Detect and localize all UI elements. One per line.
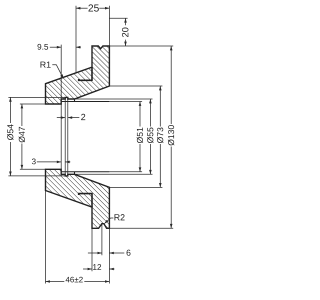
- extension line x=61.2: [60, 45, 62, 176]
- dimension Ø73 line: [159, 86, 161, 127]
- dimension Ø73 arrows: [159, 86, 162, 90]
- dimension 12 arrows: [88, 268, 92, 271]
- dimension Ø47 arrows: [21, 104, 24, 108]
- extension line Ø51 lower: [109, 171, 142, 173]
- dimension 25 text: [88, 4, 93, 11]
- bore step lower: [74, 172, 76, 175]
- bore Ø51 wall upper: [61, 101, 109, 103]
- extension line left face bottom: [45, 191, 47, 284]
- rim relief groove upper (thick L): [79, 79, 92, 80]
- dimension Ø130 line: [170, 46, 172, 124]
- bore step upper: [74, 99, 76, 102]
- leader R1 arrow: [60, 74, 63, 79]
- bore Ø51 wall lower: [61, 171, 109, 173]
- dimension Ø51 text: [137, 137, 143, 143]
- extension line Ø73 lower: [109, 186, 162, 188]
- dimension 9.5 text: [37, 44, 41, 50]
- leader R1 line: [52, 65, 63, 78]
- dimension 9.5 arrows: [57, 46, 61, 49]
- extension line x=65.2: [64, 97, 66, 175]
- dimension Ø54 line: [9, 97, 11, 123]
- extension line x=67.8: [67, 97, 69, 175]
- extension line bore Ø47 upper: [20, 103, 46, 105]
- extension line Ø55 upper: [75, 98, 153, 100]
- dimension 6 text: [127, 250, 131, 256]
- extension line bore Ø47 lower: [20, 168, 46, 170]
- dimension 25 arrows: [76, 7, 80, 10]
- reference line y=18.2: [109, 17, 127, 19]
- dimension Ø54 text: [7, 134, 13, 140]
- extension line x=76: [75, 6, 77, 73]
- dimension Ø47 text: [19, 136, 25, 142]
- dimension Ø47 line: [21, 104, 23, 126]
- dimension Ø130 arrows: [170, 46, 173, 50]
- dimension 12 line: [83, 268, 92, 270]
- dimension 20 arrows: [124, 18, 127, 22]
- dimension 6 line: [88, 252, 102, 254]
- dimension Ø130 text: [168, 139, 174, 145]
- dimension 20 text: [122, 33, 128, 37]
- rim relief groove lower (thick L): [79, 194, 92, 195]
- part upper half section (hub, web, rim): [46, 46, 110, 104]
- extension line Ø51 upper: [109, 101, 142, 103]
- dimension 6 arrows: [98, 252, 102, 255]
- extension line Ø73 upper: [109, 85, 162, 87]
- dimension 2 text: [81, 114, 85, 120]
- extension line right face bottom: [108, 228, 110, 283]
- extension line x=92 bottom: [91, 228, 93, 271]
- dimension 46±2 text: [66, 277, 70, 283]
- dimension 12 text: [93, 264, 97, 270]
- extension line groove Ø54 upper: [8, 96, 65, 98]
- rim inner edge upper: [91, 67, 93, 81]
- dimension Ø51 arrows: [139, 102, 142, 106]
- dimension Ø55 text: [147, 137, 153, 143]
- dimension Ø55 line: [149, 99, 151, 127]
- dimension 3 arrows: [57, 161, 61, 164]
- dimension 20 line: [125, 18, 127, 25]
- dimension 3 text: [32, 158, 36, 164]
- extension line flange bottom: [109, 227, 173, 229]
- dimension 3 line: [37, 161, 61, 163]
- part lower half section (hub, web, rim): [46, 169, 110, 228]
- dimension 2 arrows: [61, 116, 65, 119]
- extension line flange top: [109, 45, 173, 47]
- label R2 text: [114, 214, 119, 220]
- dimension 46±2 line: [46, 281, 65, 283]
- dimension 2 line: [57, 117, 65, 119]
- extension line right face top: [108, 6, 110, 46]
- rim inner edge lower: [91, 193, 93, 207]
- leader R2 line: [105, 218, 113, 223]
- dimension 25 line: [76, 7, 88, 9]
- extension line x=101.9 bottom: [101, 224, 103, 256]
- dimension Ø51 line: [139, 102, 141, 127]
- leader R2 arrow: [104, 220, 108, 224]
- dimension Ø54 arrows: [9, 97, 12, 101]
- label R1 text: [40, 62, 45, 68]
- extension line Ø55 lower: [75, 173, 153, 175]
- dimension Ø55 arrows: [149, 99, 152, 103]
- technical drawing: flanged hub cross-section: [0, 0, 201, 300]
- dimension 9.5 line: [50, 46, 61, 48]
- dimension 46±2 arrows: [46, 280, 50, 283]
- extension line groove Ø54 lower: [8, 175, 65, 177]
- dimension Ø73 text: [157, 137, 163, 143]
